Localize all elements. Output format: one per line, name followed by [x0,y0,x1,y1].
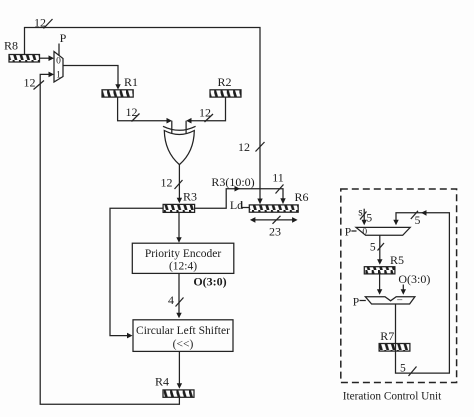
wire R1 output to XOR left input [118,97,172,135]
wire R5 output to subtractor [377,274,382,295]
svg-text:R1: R1 [124,75,138,89]
bus-width slash 12 (feedback wire) [34,81,45,90]
svg-text:R4: R4 [155,375,169,389]
svg-text:12: 12 [34,16,46,30]
bus-width slash 5 (s input) [360,212,367,220]
svg-text:0: 0 [362,228,367,238]
register R6 [249,190,308,212]
bus-width slash 5 (ICU bottom) [409,367,417,377]
block circular left shifter [133,320,233,352]
svg-text:11: 11 [272,171,284,185]
bus-width slash 12 (R1 to XOR) [132,114,140,122]
net P select into subtractor [353,297,366,309]
svg-text:23: 23 [269,225,281,239]
svg-text:Iteration Control Unit: Iteration Control Unit [343,391,442,403]
svg-text:(12:4): (12:4) [169,261,197,273]
svg-text:5: 5 [415,215,421,227]
wire mux M1 output to register R1 [63,66,121,90]
wire shifter output to register R4 [177,351,182,388]
svg-text:12: 12 [24,76,36,90]
register R3 [163,190,197,213]
bus-width slash 11 [276,185,284,194]
register R1 [102,75,138,97]
mux M1 [54,52,63,83]
wire R3 output to priority encoder [176,212,181,242]
svg-text:R5: R5 [390,253,404,267]
net Ld load enable of R6 [230,198,249,212]
net P select into mux M1 [59,31,67,55]
bus-width slash 12 (top wire) [44,19,53,29]
bus-width slash 5 (feedback top) [411,211,418,219]
svg-text:(<<): (<<) [173,339,194,351]
svg-text:−: − [397,295,403,307]
wire priority encoder output to shifter [176,273,181,318]
svg-text:R6: R6 [294,190,308,204]
svg-text:12: 12 [161,176,173,190]
svg-text:R2: R2 [217,75,231,89]
svg-text:12: 12 [126,105,138,119]
net P select into mux M2 [345,227,357,239]
register R4 [155,375,194,398]
wire R2 output to XOR right input [186,97,225,135]
mux M2 [356,227,410,237]
bus-width slash 12 (R2 to XOR) [205,114,214,122]
subtractor U2 [365,295,415,307]
wire feedback loop of iteration control unit [393,210,449,373]
register R2 [210,75,241,97]
node arrow into R6 top (12-bit bus) [257,199,262,205]
bus-width double arrow 23 below R6 [250,216,298,224]
register R8 [4,39,40,63]
net s input to mux M2 [358,207,367,226]
register R7 [379,329,410,351]
bus-width slash 4 [176,298,184,307]
block priority encoder [132,243,234,273]
wire mux M2 output to register R5 [377,235,382,264]
svg-text:Priority Encoder: Priority Encoder [145,248,221,260]
svg-text:P: P [60,31,67,45]
svg-text:P: P [345,227,351,239]
wire net R3(10:0) to register R6 [195,186,286,208]
svg-text:R7: R7 [380,329,394,343]
svg-text:12: 12 [199,106,211,120]
register R5 [364,253,404,274]
svg-text:4: 4 [168,293,174,307]
svg-text:1: 1 [56,71,61,81]
wire XOR output to register R3 [177,165,182,204]
xor gate U1 [163,126,196,164]
wire R3 output left to circular shifter [110,208,163,338]
bus-width slash 5 (M2 to R5) [378,243,385,251]
svg-text:5: 5 [370,242,376,254]
wire feedback from R4 to mux M1 input 1 [40,72,179,405]
wire R8 output to mux M1 input 0 [40,55,55,61]
bus-width slash 12 (XOR to R3) [175,180,183,189]
svg-text:O(3:0): O(3:0) [398,272,430,286]
svg-text:O(3:0): O(3:0) [193,275,226,289]
svg-text:R3: R3 [183,190,197,204]
wire top feedback R8/R6 [25,28,261,201]
svg-text:R8: R8 [4,39,18,53]
wire O(3:0) to subtractor [401,285,406,295]
svg-text:Circular Left Shifter: Circular Left Shifter [136,325,230,337]
bus-width slash 12 (vertical to R6) [256,142,265,152]
svg-text:5: 5 [366,213,372,225]
iteration control unit dashed boundary [341,189,457,403]
svg-text:Ld: Ld [230,198,243,212]
svg-text:12: 12 [238,140,250,154]
svg-text:5: 5 [400,363,406,375]
svg-text:0: 0 [56,57,61,67]
svg-text:P: P [353,297,359,309]
svg-text:R3(10:0): R3(10:0) [211,175,254,189]
